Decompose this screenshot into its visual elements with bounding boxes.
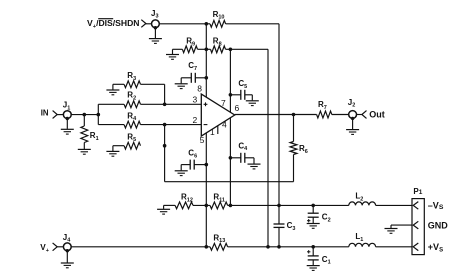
junction pin3 node <box>163 103 167 107</box>
svg-text:7: 7 <box>221 98 226 108</box>
ground at C6 <box>175 165 188 176</box>
junction top rail <box>205 22 209 26</box>
wire pin7 vertical <box>229 49 231 112</box>
ground at P1 <box>385 225 398 233</box>
junction R1 top <box>83 113 87 117</box>
junction rowA C2 <box>311 204 315 208</box>
pin 1 stub <box>217 126 219 134</box>
wire vertical x278 to -Vs rail <box>278 24 280 206</box>
junction C5 <box>229 93 233 97</box>
junction output node <box>292 113 296 117</box>
wire split to R4 <box>98 124 124 126</box>
inductor L2 <box>349 192 376 206</box>
P1 pin +Vs arrow <box>413 243 418 251</box>
capacitor C5 <box>230 79 252 100</box>
wire R9 to pin8 node <box>198 48 207 50</box>
svg-text:P1: P1 <box>413 187 422 196</box>
wire pin5 net to +Vs rail <box>205 205 207 246</box>
pin 6 number <box>235 103 240 113</box>
wire R2 to pin3 <box>141 103 202 105</box>
junction rowB C1 <box>311 245 315 249</box>
wire to R10 <box>206 23 210 25</box>
junction rowA C3 <box>277 204 281 208</box>
wire J4 to R13 <box>71 246 210 248</box>
connector J1 <box>53 101 72 119</box>
svg-text:GND: GND <box>428 220 449 230</box>
resistor R5 <box>124 132 140 149</box>
junction R9/R8 <box>205 48 209 52</box>
resistor R7 <box>294 100 332 118</box>
junction rowA/pin5 <box>205 204 209 208</box>
pin 5 number <box>200 135 205 145</box>
wire R8 right <box>226 48 231 50</box>
resistor R3 <box>124 71 140 88</box>
svg-text:5: 5 <box>200 135 205 145</box>
wire pin5 vertical <box>205 133 207 205</box>
pin 8 number <box>197 84 202 94</box>
resistor R1 <box>81 115 99 149</box>
wire pin4 vertical <box>229 118 231 205</box>
resistor R8 <box>206 37 225 53</box>
resistor R11 <box>210 193 228 209</box>
svg-text:IN: IN <box>41 108 49 117</box>
connector J4 <box>53 233 72 251</box>
junction pin2 node <box>163 123 167 127</box>
junction rowA/pin4 <box>229 204 233 208</box>
svg-text:8: 8 <box>197 84 202 94</box>
ground at C7 <box>175 78 188 89</box>
ground at C5 <box>246 95 259 106</box>
node V+/DIS/SHDN label <box>87 18 140 30</box>
node Out label <box>369 110 385 120</box>
connector J2 <box>332 98 367 119</box>
ground at R1 <box>78 149 91 154</box>
junction rowB x267 <box>266 245 270 249</box>
capacitor C7 <box>181 61 206 83</box>
wire J3 to pin8 node <box>159 23 206 25</box>
junction R8/pin7 <box>229 48 233 52</box>
resistor R6 <box>290 115 308 182</box>
ground at C4 <box>248 158 261 169</box>
wire pin8 vertical upper <box>205 24 207 50</box>
pin 4 number <box>222 120 227 130</box>
wire vertical x267 to +Vs rail <box>267 49 269 247</box>
wire R10 to -Vs drop <box>226 23 279 25</box>
capacitor C4 <box>230 141 254 163</box>
wire split to R2 <box>98 103 124 105</box>
wire split vertical <box>97 104 99 124</box>
net GND label <box>428 220 449 230</box>
net +Vs label <box>428 242 443 254</box>
ground at J4 <box>61 249 74 268</box>
capacitor C1 (polarized) <box>307 247 331 266</box>
net -Vs label <box>428 200 444 210</box>
junction rowB/R13 <box>205 245 209 249</box>
wire R12 to junction <box>193 204 210 206</box>
resistor R13 <box>210 233 228 250</box>
pin 2 number <box>192 115 197 125</box>
junction C7 <box>205 76 209 80</box>
ground at R5 <box>106 146 124 157</box>
wire rowB middle <box>228 246 349 248</box>
connector P1 <box>412 187 424 255</box>
op-amp U1 <box>201 94 234 136</box>
wire pin8 into op-amp <box>205 78 207 98</box>
capacitor C6 <box>181 149 206 170</box>
svg-text:4: 4 <box>222 120 227 130</box>
wire L1 to P1 <box>376 246 412 248</box>
connector J3 <box>141 9 159 28</box>
resistor R4 <box>124 111 140 128</box>
wire R3 to node <box>141 84 165 104</box>
ground at C1 <box>307 266 320 271</box>
P1 pin GND arrow <box>413 221 418 229</box>
resistor R12 <box>175 193 193 209</box>
inductor L1 <box>349 232 376 247</box>
wire inverting node vertical <box>164 125 166 182</box>
ground at J1 <box>61 117 74 134</box>
ground at R9 <box>166 49 182 59</box>
junction rowB C3 <box>277 245 281 249</box>
capacitor C2 (polarized) <box>307 205 331 223</box>
ground at R12 <box>157 205 175 214</box>
wire rowA middle <box>228 204 349 206</box>
node V+ label <box>40 243 49 254</box>
resistor R9 <box>182 37 197 53</box>
pin 7 number <box>221 98 226 108</box>
wire pin8 vertical to C7 <box>205 49 207 78</box>
wire J1 to split <box>71 114 98 116</box>
svg-text:2: 2 <box>192 115 197 125</box>
ground at J2 <box>346 117 359 135</box>
junction input split <box>97 113 101 117</box>
pin 1 number <box>210 127 215 137</box>
svg-text:Out: Out <box>369 110 385 120</box>
wire feedback bottom <box>165 181 294 183</box>
svg-text:6: 6 <box>235 103 240 113</box>
svg-text:3: 3 <box>192 95 197 105</box>
junction C6 <box>205 163 209 167</box>
wire P1 GND <box>391 224 412 226</box>
svg-text:1: 1 <box>210 127 215 137</box>
junction R5 node <box>163 144 167 148</box>
resistor R2 <box>124 91 140 108</box>
wire L2 to P1 <box>376 204 412 206</box>
resistor R10 <box>210 10 226 27</box>
capacitor C3 <box>274 205 296 246</box>
wire output <box>235 114 294 116</box>
ground at C2 <box>307 224 320 229</box>
node IN label <box>41 108 49 117</box>
P1 pin -Vs arrow <box>413 202 418 210</box>
junction C4 <box>229 156 233 160</box>
wire R4 to pin2 <box>141 124 202 126</box>
pin 3 number <box>192 95 197 105</box>
wire R8 to +Vs drop <box>230 48 268 50</box>
ground at J3 <box>149 26 162 43</box>
ground at R3 <box>106 84 124 95</box>
